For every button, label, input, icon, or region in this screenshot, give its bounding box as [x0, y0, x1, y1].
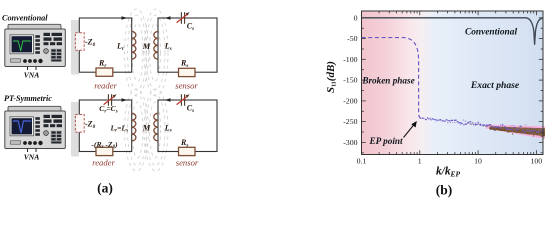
svg-text:Broken phase: Broken phase [361, 76, 414, 86]
svg-text:Cs: Cs [187, 104, 194, 114]
svg-text:100: 100 [530, 157, 542, 166]
svg-text:VNA: VNA [24, 71, 40, 80]
svg-text:-200: -200 [343, 97, 357, 106]
current arrow (conventional sensor) [165, 16, 171, 20]
svg-text:(b): (b) [436, 183, 453, 198]
svg-text:Rs: Rs [180, 138, 188, 148]
svg-text:-50: -50 [347, 34, 357, 43]
axis ticks [362, 11, 544, 155]
impedance -Z0 (PT, dashed box) [75, 115, 84, 133]
svg-text:Exact phase: Exact phase [470, 80, 520, 91]
svg-text:Rs: Rs [180, 59, 188, 69]
svg-text:k/kEP: k/kEP [436, 165, 460, 178]
flux lines M (PT) [125, 89, 169, 171]
resistor -(Rr-Z0) (PT) [96, 147, 113, 155]
svg-text:Conventional: Conventional [465, 28, 517, 38]
svg-text:sensor: sensor [176, 158, 199, 168]
svg-text:reader: reader [92, 158, 115, 168]
svg-text:1: 1 [418, 157, 422, 166]
svg-text:VNA: VNA [24, 153, 40, 162]
reader loop wire (PT) [79, 100, 131, 152]
svg-text:-Z0: -Z0 [85, 38, 96, 48]
svg-text:S11(dB): S11(dB) [325, 61, 338, 93]
svg-text:-100: -100 [343, 55, 357, 64]
svg-text:sensor: sensor [175, 81, 198, 91]
curve PT-symmetric (dashed, broken phase) [362, 38, 421, 118]
svg-text:Ls: Ls [164, 123, 172, 133]
svg-text:10: 10 [474, 157, 482, 166]
capacitor Cs (conventional, variable) [177, 12, 190, 24]
svg-text:0.1: 0.1 [357, 157, 367, 166]
curve conventional (flat with dip) [362, 18, 544, 45]
capacitor Cr=Cs (PT, variable) [104, 94, 117, 106]
inductor Ls (conventional) [154, 32, 158, 60]
inductor Ls (PT) [154, 113, 158, 141]
svg-text:-Z0: -Z0 [85, 119, 96, 129]
inductor Lr (conventional) [132, 32, 136, 60]
EP scatter trace (purple extra) [428, 118, 543, 133]
capacitor Cs (PT, variable) [177, 94, 190, 106]
arrow to EP point [404, 124, 415, 138]
current arrow (PT reader) [122, 98, 128, 102]
svg-text:Cr=Cs: Cr=Cs [99, 104, 117, 114]
svg-text:-250: -250 [343, 117, 357, 126]
inductor Lr=Ls (PT) [132, 113, 136, 141]
VNA instrument U2 (PT) [5, 106, 66, 152]
svg-text:M: M [142, 42, 151, 51]
svg-text:Rr: Rr [98, 59, 107, 69]
current arrow (PT sensor) [165, 98, 171, 102]
resistor Rs (PT) [179, 147, 196, 155]
svg-text:Lr=Ls: Lr=Ls [110, 123, 129, 133]
plot background gradient [362, 11, 544, 155]
panel (b) : S11 plot [325, 11, 545, 198]
svg-text:reader: reader [94, 81, 117, 91]
svg-text:(a): (a) [97, 181, 113, 196]
svg-text:Conventional: Conventional [2, 14, 48, 23]
svg-text:Ls: Ls [164, 42, 172, 52]
panel (a) : circuit schematic [2, 9, 217, 196]
VNA instrument U1 (conventional) [5, 24, 66, 70]
svg-text:Lr: Lr [116, 42, 125, 52]
x tick labels [357, 157, 543, 166]
y tick labels [343, 13, 357, 147]
scatter trace (PT-symmetric, purple) placeholder [420, 118, 545, 139]
flux lines M (conventional) [125, 9, 169, 96]
current arrow (conventional reader) [122, 16, 128, 20]
EP scatter band halo (pink) [486, 125, 545, 139]
EP scatter band (brown wedge) [490, 126, 545, 136]
resistor Rr (conventional) [96, 68, 113, 76]
svg-text:M: M [142, 124, 151, 133]
port shading band (conventional) [71, 20, 79, 75]
svg-text:EP point: EP point [368, 136, 403, 146]
plot frame [362, 11, 544, 155]
sensor loop wire (conventional) [158, 18, 217, 72]
EP scatter trace (purple noisy) [420, 118, 543, 132]
svg-text:PT-Symmetric: PT-Symmetric [4, 94, 52, 103]
reader loop wire (conventional) [79, 18, 131, 72]
impedance -Z0 (conventional, dashed box) [75, 33, 84, 51]
svg-text:Cs: Cs [187, 22, 194, 32]
EP scatter early brown dots [468, 123, 492, 128]
EP scatter band (brown noise) [489, 128, 545, 137]
svg-text:-150: -150 [343, 76, 357, 85]
svg-text:0: 0 [354, 13, 358, 22]
port shading band (PT) [71, 102, 79, 157]
svg-text:-(Rr -Z0): -(Rr -Z0) [91, 140, 118, 150]
resistor Rs (conventional) [179, 68, 196, 76]
sensor loop wire (PT) [158, 100, 217, 152]
svg-text:-300: -300 [343, 138, 357, 147]
